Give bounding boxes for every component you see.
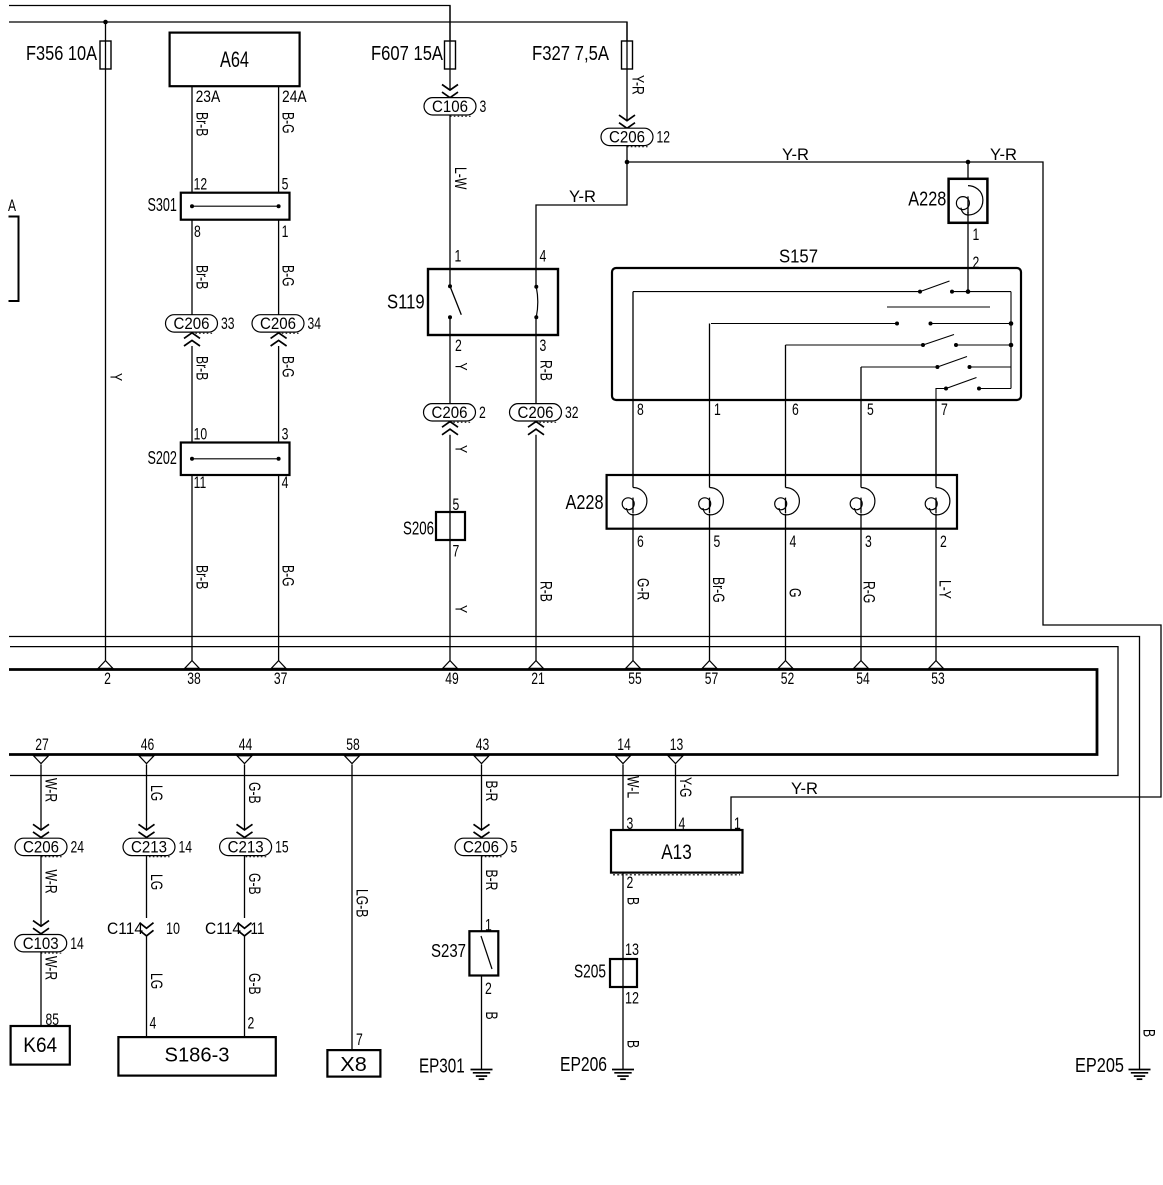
svg-text:5: 5: [282, 176, 289, 194]
svg-text:12: 12: [194, 176, 208, 194]
svg-text:C206: C206: [432, 404, 468, 422]
svg-text:S202: S202: [148, 448, 177, 468]
connector C206 pin 34: [252, 315, 304, 332]
wire LG ECU46 to C213-14: [146, 765, 148, 830]
svg-text:3: 3: [480, 98, 487, 116]
svg-text:Y-G: Y-G: [676, 777, 694, 798]
svg-text:C114: C114: [107, 920, 143, 938]
svg-text:7: 7: [356, 1031, 363, 1049]
pin 54 ECU top: [854, 661, 869, 669]
svg-text:Y-R: Y-R: [791, 780, 818, 798]
svg-text:Y-R: Y-R: [782, 146, 809, 164]
svg-text:C206: C206: [260, 315, 296, 333]
svg-text:F607 15A: F607 15A: [371, 43, 444, 65]
svg-text:S301: S301: [148, 195, 177, 215]
splice S206: [436, 512, 465, 540]
S157 contact row 1: [633, 291, 920, 293]
fuse F607 15A: [449, 6, 451, 91]
svg-text:58: 58: [346, 736, 360, 754]
pin 2 ECU top: [98, 661, 113, 669]
svg-text:B: B: [1140, 1029, 1158, 1037]
svg-text:C206: C206: [23, 839, 59, 857]
svg-text:LG: LG: [147, 973, 165, 989]
svg-text:33: 33: [221, 315, 235, 333]
S157 contact row 4: [861, 366, 937, 368]
wire Br-B S202.11 to ECU pin38: [191, 475, 193, 661]
svg-text:R-B: R-B: [537, 360, 555, 381]
svg-text:A228: A228: [566, 492, 604, 514]
svg-text:G-B: G-B: [245, 873, 263, 895]
wire B-G S301.1 to C206-34: [278, 220, 280, 315]
svg-text:46: 46: [141, 736, 155, 754]
svg-text:5: 5: [453, 496, 460, 514]
svg-text:1: 1: [455, 248, 462, 266]
svg-text:4: 4: [282, 474, 289, 492]
fuse F356 10A: [105, 22, 107, 661]
wire G-B to C114: [244, 856, 246, 918]
svg-text:C103: C103: [23, 935, 59, 953]
component S186-3: [118, 1037, 275, 1076]
svg-text:EP301: EP301: [419, 1056, 465, 1078]
svg-text:11: 11: [251, 920, 265, 938]
svg-text:K64: K64: [23, 1034, 57, 1057]
svg-text:13: 13: [625, 941, 639, 959]
S157 contact row 2: [711, 323, 897, 325]
svg-text:B-G: B-G: [279, 356, 297, 378]
svg-text:B-G: B-G: [279, 565, 297, 587]
svg-text:R-B: R-B: [537, 581, 555, 602]
svg-text:53: 53: [931, 670, 945, 688]
wire W-R to K64: [40, 952, 42, 1026]
wire S157.6 to A228.4: [785, 345, 787, 488]
svg-text:1: 1: [973, 226, 980, 244]
wire B to EP301: [481, 976, 483, 1070]
wire S157.1 to A228.5: [709, 324, 711, 488]
node junction Y-R split: [625, 160, 630, 165]
splice S202: [181, 443, 290, 476]
A228 socket at x=709.5: [703, 488, 723, 515]
svg-text:Y-R: Y-R: [990, 146, 1017, 164]
wire LG to C114: [146, 856, 148, 918]
pin 46 ECU bottom: [139, 756, 154, 764]
svg-text:C206: C206: [518, 404, 554, 422]
svg-text:44: 44: [239, 736, 253, 754]
wire G-B to S186-3: [244, 937, 246, 1038]
wire G to ECU pin52: [785, 514, 787, 661]
svg-text:C106: C106: [432, 98, 468, 116]
svg-text:S157: S157: [779, 247, 818, 267]
svg-text:W-R: W-R: [42, 956, 60, 980]
wire W-R to C103: [40, 856, 42, 926]
svg-text:4: 4: [790, 533, 797, 551]
node junction A228 feed: [966, 160, 971, 165]
pin 21 ECU top: [529, 661, 544, 669]
svg-text:A228: A228: [908, 189, 946, 211]
wire Br-G to ECU pin57: [709, 514, 711, 661]
svg-text:3: 3: [282, 426, 289, 444]
component X8: [327, 1050, 380, 1077]
svg-text:S237: S237: [431, 941, 466, 961]
svg-text:12: 12: [657, 129, 671, 147]
node junction F356 tap: [103, 20, 108, 25]
svg-text:49: 49: [445, 670, 459, 688]
wire S157.7 to A228.2: [935, 400, 937, 488]
svg-text:10: 10: [194, 426, 208, 444]
svg-text:A13: A13: [661, 841, 692, 864]
ground EP206: [612, 1069, 634, 1071]
svg-text:Y-R: Y-R: [629, 75, 647, 95]
svg-text:Y: Y: [107, 373, 125, 381]
svg-text:G-B: G-B: [245, 973, 263, 995]
svg-text:32: 32: [565, 404, 579, 422]
svg-text:B-R: B-R: [482, 781, 500, 802]
svg-text:Y: Y: [452, 445, 470, 453]
svg-text:Br-B: Br-B: [193, 112, 211, 136]
svg-text:C213: C213: [228, 839, 264, 857]
wire S157.8 to A228.6: [632, 292, 634, 488]
pin 14 ECU bottom: [616, 756, 631, 764]
svg-text:11: 11: [194, 474, 207, 492]
svg-text:C213: C213: [131, 839, 167, 857]
pin 52 ECU top: [778, 661, 793, 669]
wire R-G to ECU pin54: [860, 514, 862, 661]
svg-text:C114: C114: [205, 920, 241, 938]
svg-text:3: 3: [865, 533, 872, 551]
svg-text:B-R: B-R: [482, 870, 500, 891]
svg-text:27: 27: [35, 736, 49, 754]
svg-text:W-R: W-R: [42, 870, 60, 894]
svg-text:2: 2: [455, 337, 462, 355]
svg-text:C206: C206: [609, 129, 645, 147]
pin 49 ECU top: [443, 661, 458, 669]
wire Br-B S301.8 to C206-33: [191, 220, 193, 315]
svg-text:6: 6: [637, 533, 644, 551]
svg-text:Br-B: Br-B: [193, 565, 211, 589]
svg-text:34: 34: [308, 315, 322, 333]
svg-text:14: 14: [179, 839, 193, 857]
connector C206 pin 32: [510, 404, 562, 421]
pin 57 ECU top: [702, 661, 717, 669]
wire S119.3 to C206-32: [535, 317, 537, 404]
svg-text:B-G: B-G: [279, 112, 297, 134]
svg-text:1: 1: [714, 401, 721, 419]
wire B-G C206-34 to S202: [278, 346, 280, 443]
svg-text:G-R: G-R: [634, 578, 652, 600]
wire top rail 1: [9, 6, 450, 42]
switch S237: [469, 931, 498, 975]
svg-text:10: 10: [166, 920, 180, 938]
svg-text:Y: Y: [452, 605, 470, 613]
svg-text:X8: X8: [340, 1054, 367, 1076]
svg-text:15: 15: [275, 839, 289, 857]
svg-text:LG: LG: [147, 785, 165, 801]
pin 44 ECU bottom: [237, 756, 252, 764]
wire C206-12 down to S119 pin 4: [536, 145, 627, 286]
wire B-R to S237: [481, 856, 483, 932]
svg-text:8: 8: [194, 223, 201, 241]
svg-text:LG-B: LG-B: [353, 889, 371, 917]
svg-text:2: 2: [104, 670, 111, 688]
wire Y S206 to ECU pin49: [449, 512, 451, 661]
svg-text:57: 57: [705, 670, 719, 688]
svg-text:S119: S119: [387, 292, 425, 314]
splice S301: [181, 193, 290, 220]
svg-text:W-L: W-L: [624, 776, 642, 798]
wire B S205 to EP206: [622, 987, 624, 1070]
pin 58 ECU bottom: [345, 756, 360, 764]
svg-text:14: 14: [70, 935, 84, 953]
A228 socket at x=936: [930, 488, 950, 515]
wire A64 pin 23A: [191, 86, 193, 193]
wire S157.5 to A228.3: [860, 367, 862, 488]
connector C213 pin 15: [220, 838, 272, 855]
wire B-R ECU43 to C206-5: [481, 765, 483, 830]
svg-text:G-B: G-B: [245, 782, 263, 804]
wire B A13.2 to S205: [622, 873, 624, 987]
svg-text:R-G: R-G: [860, 581, 878, 603]
pin 43 ECU bottom: [474, 756, 489, 764]
wire R-B C206-32 to ECU pin21: [535, 435, 537, 661]
svg-text:S206: S206: [403, 519, 434, 539]
wire Y C206-2 to S206: [449, 435, 451, 512]
pin 13 ECU bottom: [668, 756, 683, 764]
component A228 top: [967, 162, 969, 179]
pin 37 ECU top: [271, 661, 286, 669]
connector C206 pin 33: [166, 315, 218, 332]
wire S157 pin2 feed: [967, 268, 969, 292]
wire A64 pin 24A: [278, 86, 280, 193]
svg-text:L-Y: L-Y: [936, 580, 954, 599]
pin 38 ECU top: [185, 661, 200, 669]
svg-text:C206: C206: [463, 839, 499, 857]
connector C206 pin 2: [424, 404, 476, 421]
ECU box top edge: [9, 670, 1097, 755]
svg-text:21: 21: [531, 670, 545, 688]
svg-text:EP205: EP205: [1075, 1055, 1124, 1077]
S157 common vertical: [1010, 292, 1012, 389]
wire W-R ECU27 to C206-24: [40, 765, 42, 830]
wire B-G S202.4 to ECU pin37: [278, 475, 280, 661]
svg-text:L-W: L-W: [451, 167, 469, 190]
svg-text:24: 24: [71, 839, 85, 857]
svg-text:A: A: [8, 197, 16, 215]
wire G-R to ECU pin55: [632, 514, 634, 661]
svg-text:12: 12: [625, 990, 639, 1008]
svg-text:2: 2: [940, 533, 947, 551]
pin 55 ECU top: [626, 661, 641, 669]
svg-text:24A: 24A: [282, 88, 307, 106]
svg-text:37: 37: [274, 670, 288, 688]
svg-text:B: B: [624, 897, 642, 905]
svg-text:5: 5: [511, 839, 518, 857]
svg-text:55: 55: [628, 670, 642, 688]
wire L-Y to ECU pin53: [935, 514, 937, 661]
switch S157: [612, 268, 1021, 400]
wire Br-B C206-33 to S202: [191, 346, 193, 443]
svg-text:14: 14: [617, 736, 631, 754]
svg-text:EP206: EP206: [560, 1054, 607, 1076]
svg-text:8: 8: [637, 401, 644, 419]
svg-text:G: G: [786, 588, 804, 598]
svg-text:38: 38: [187, 670, 201, 688]
svg-text:43: 43: [476, 736, 490, 754]
A228 socket at x=861: [855, 488, 875, 515]
component K64: [11, 1026, 70, 1065]
svg-text:S186-3: S186-3: [165, 1045, 230, 1067]
svg-text:7: 7: [453, 543, 460, 561]
svg-text:LG: LG: [147, 874, 165, 890]
wire top rail 2: [9, 22, 627, 41]
wire LG to S186-3: [146, 937, 148, 1038]
ground EP205: [1129, 1069, 1151, 1071]
wire S119.2 to C206-2: [449, 317, 451, 404]
fuse F327 7,5A: [626, 22, 628, 121]
svg-text:52: 52: [781, 670, 795, 688]
svg-text:B: B: [624, 1040, 642, 1048]
svg-text:S205: S205: [574, 962, 606, 982]
svg-text:B: B: [482, 1012, 500, 1020]
svg-text:4: 4: [150, 1015, 157, 1033]
svg-text:Br-G: Br-G: [709, 577, 727, 603]
svg-text:2: 2: [485, 980, 492, 998]
wire G-B ECU44 to C213-15: [244, 765, 246, 830]
svg-text:2: 2: [627, 874, 634, 892]
svg-text:1: 1: [282, 223, 289, 241]
svg-text:54: 54: [856, 670, 870, 688]
svg-text:5: 5: [714, 533, 721, 551]
S157 contact row 3: [786, 344, 924, 346]
S157 contact row 5: [936, 389, 946, 476]
svg-text:A64: A64: [220, 47, 249, 72]
wire bus 2 wrap-around: [10, 647, 1118, 776]
wire LG-B ECU58 to X8: [351, 765, 353, 1051]
connector C213 pin 14: [123, 838, 175, 855]
ground EP301: [471, 1069, 493, 1071]
A228 socket at x=633: [627, 488, 647, 515]
svg-text:Y: Y: [452, 363, 470, 371]
wire Y-R net to A228 and right edge: [627, 162, 1161, 830]
svg-text:W-R: W-R: [42, 778, 60, 802]
wire ground bus B to EP205: [9, 637, 1140, 1070]
svg-text:3: 3: [540, 337, 547, 355]
connector C206 pin 12: [619, 115, 635, 121]
connector C206 pin 5: [455, 838, 507, 855]
svg-text:13: 13: [670, 736, 684, 754]
S157 slider line: [887, 306, 990, 308]
wire Y-G ECU13 to A13.4: [675, 765, 677, 831]
svg-text:4: 4: [540, 248, 547, 266]
wire W-L ECU14 to A13.3: [622, 765, 624, 831]
svg-text:6: 6: [792, 401, 799, 419]
connector C206 pin 24: [15, 838, 67, 855]
pin 27 ECU bottom: [34, 756, 49, 764]
svg-text:F327 7,5A: F327 7,5A: [532, 43, 610, 65]
svg-text:2: 2: [248, 1015, 255, 1033]
switch S119: [428, 269, 558, 335]
svg-text:2: 2: [479, 404, 486, 422]
A228 socket at x=785.5: [779, 488, 799, 515]
pin 53 ECU top: [929, 661, 944, 669]
wire C106 to S119 pin1: [449, 115, 451, 287]
splice S205: [610, 959, 637, 987]
svg-text:F356 10A: F356 10A: [26, 43, 98, 65]
svg-text:23A: 23A: [196, 88, 221, 106]
component A13: [611, 830, 743, 873]
component A64: [170, 33, 300, 87]
svg-text:B-G: B-G: [279, 265, 297, 287]
svg-text:Br-B: Br-B: [193, 265, 211, 289]
connector C103 pin 14: [15, 935, 67, 952]
svg-text:Y-R: Y-R: [569, 188, 596, 206]
svg-text:2: 2: [973, 254, 980, 272]
component A228 lower: [607, 475, 957, 529]
svg-text:5: 5: [867, 401, 874, 419]
svg-text:C206: C206: [174, 315, 210, 333]
connector C106 pin 3: [442, 85, 458, 91]
svg-text:Br-B: Br-B: [193, 356, 211, 380]
svg-text:7: 7: [941, 401, 948, 419]
